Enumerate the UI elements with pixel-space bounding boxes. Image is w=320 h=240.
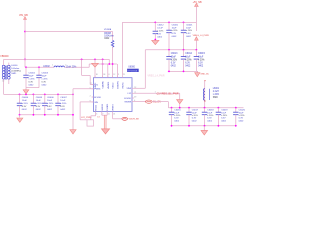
svg-text:10uF: 10uF [22,100,28,102]
wire B inductor feed y=67.3 [25,66,54,68]
svg-text:0402: 0402 [29,85,35,87]
svg-text:0402: 0402 [239,120,245,122]
svg-text:6.3V: 6.3V [192,118,197,120]
svg-text:10uF: 10uF [60,100,66,102]
svg-text:VIO22: VIO22 [113,82,115,89]
wire W2 drop vertical x=112.6 [112,32,114,41]
wire lineB2 y=64.0 [89,63,117,65]
svg-text:0402: 0402 [221,120,227,122]
svg-text:BGDRV: BGDRV [117,80,119,88]
svg-text:C6004: C6004 [22,97,29,99]
svg-text:SWIRE: SWIRE [124,102,131,104]
svg-text:13: 13 [97,117,99,119]
wire W0 end stub below [195,22,197,31]
ground arrow center large [102,129,110,134]
svg-text:10uF: 10uF [221,112,227,114]
svg-text:GND_BL: GND_BL [200,74,210,76]
inductor L6000 common-mode choke [2,65,5,68]
svg-text:C6000: C6000 [172,25,179,27]
svg-text:6: 6 [96,114,97,116]
svg-text:x 20%: x 20% [22,103,28,105]
capacitor C6013 [168,50,170,57]
wire INN pin to FB box [80,101,93,103]
wire input vertical x=25 [24,19,26,67]
svg-text:FB6000: FB6000 [1,56,10,58]
svg-text:6.3V: 6.3V [198,62,203,64]
IC U6000 highlighted part number MT6368A [127,69,139,72]
svg-text:(100MHz): (100MHz) [11,70,21,72]
svg-text:10uF: 10uF [186,27,192,29]
svg-text:C6018: C6018 [207,110,214,112]
svg-text:0402: 0402 [172,36,178,38]
svg-text:49: 49 [134,97,136,99]
svg-text:6.3V: 6.3V [171,62,176,64]
svg-text:6.3V: 6.3V [29,82,34,84]
svg-text:10uF: 10uF [174,112,180,114]
node W3/VIN-arrow junction [94,59,96,61]
IC top pins [94,76,96,78]
svg-text:VDDPA: VDDPA [102,81,105,89]
node input/W3 junction [24,59,26,61]
svg-text:C6013: C6013 [171,53,178,55]
ground arrow upper caps [25,88,27,90]
power flag VREG_L4_PWR [195,37,199,40]
svg-text:6.3V: 6.3V [42,82,47,84]
svg-text:10uF: 10uF [29,76,35,78]
node rail3 junctions [171,107,173,109]
capacitor C6016 [171,108,173,113]
choke top stub wires [3,59,5,65]
svg-text:L6002: L6002 [43,66,50,68]
wire SWIRE pin to oval [134,101,146,103]
svg-text:ISNS1: ISNS1 [122,82,124,89]
svg-text:10uF: 10uF [185,56,191,58]
wire VINF pin to rail A riser [134,87,145,89]
resistor R6001 box [87,120,94,126]
node lineB2 junctions [102,63,104,65]
svg-text:SMD: SMD [213,97,218,99]
inductor L6001 pin tick top [204,80,206,82]
svg-text:+5V_NB: +5V_NB [193,1,202,4]
ground arrow bottom-right bank [203,126,205,131]
svg-text:10uF: 10uF [172,27,178,29]
svg-text:C6017: C6017 [192,110,199,112]
svg-text:C6020: C6020 [239,110,246,112]
svg-text:U6000: U6000 [128,67,135,69]
node W3/choke-drop junction [81,59,83,61]
wire ground rail y=94.4 [4,93,73,95]
wire rail3 y=107.7 [168,107,243,109]
capacitor C6004 [19,94,21,103]
capacitor C6012 on W0 [154,22,156,31]
node rail A junctions [168,49,170,51]
svg-text:0402: 0402 [157,36,163,38]
svg-text:VREG_L4_PWR: VREG_L4_PWR [193,35,210,37]
svg-text:17: 17 [90,83,92,85]
svg-text:x 20%: x 20% [172,30,178,32]
svg-text:LX1: LX1 [94,85,99,87]
svg-text:0.1uF: 0.1uF [157,28,163,30]
wire FB pin down to box [95,113,97,115]
svg-text:AVDD1: AVDD1 [107,81,110,89]
svg-text:VREG_L4_PWR: VREG_L4_PWR [148,76,165,78]
svg-text:x 20%: x 20% [29,79,35,81]
svg-text:C6002: C6002 [29,73,36,75]
ground stem center double line [103,115,105,129]
wire W2 horizontal y=31.5 [25,31,113,33]
node W0 junctions [154,22,156,24]
capacitor C6014 [183,50,185,57]
svg-text:0402: 0402 [198,65,204,67]
node rail4 junctions [171,125,173,127]
svg-text:6.3V: 6.3V [207,118,212,120]
svg-text:SMD: SMD [11,73,16,75]
svg-text:PWM1: PWM1 [94,89,101,91]
node bottom rail junctions [19,114,21,116]
svg-text:0402: 0402 [47,109,53,111]
capacitor C6018 [204,108,206,113]
svg-text:10uF: 10uF [47,100,53,102]
IC right pins [132,87,134,89]
node wire B cap C6003 junction [38,66,40,68]
capacitor C6006 [44,94,46,103]
svg-text:6.3V: 6.3V [47,106,52,108]
svg-text:C6001: C6001 [186,25,193,27]
svg-text:x 20%: x 20% [221,115,227,117]
svg-text:C6016: C6016 [174,110,181,112]
inductor L6002 [54,66,64,67]
svg-text:6.3V: 6.3V [239,118,244,120]
svg-text:10uF: 10uF [207,112,213,114]
svg-text:10uF: 10uF [42,76,48,78]
svg-text:1 2: 1 2 [2,81,5,83]
wire rail B y=71.4 [168,70,198,72]
svg-text:0402: 0402 [42,85,48,87]
node C6012 bottom [154,39,156,41]
svg-text:C6005: C6005 [36,97,43,99]
svg-text:6.3V: 6.3V [60,106,65,108]
svg-text:0402: 0402 [22,109,28,111]
svg-text:ELVDD: ELVDD [124,98,131,100]
svg-text:x 20%: x 20% [157,31,163,33]
capacitor C6000 [168,22,170,30]
svg-text:0402: 0402 [36,109,42,111]
wire B jog up to lineB2 [88,64,90,67]
wire LX2 net to bottom-right bank [134,92,180,94]
capacitor C6003 [38,67,40,75]
wire W0 drop to IC pin x=122.4 [121,22,123,75]
svg-text:6.3V: 6.3V [186,33,191,35]
svg-text:VDDPA: VDDPA [104,28,112,31]
node rail B junctions [168,71,170,73]
capacitor C6015 [195,50,197,57]
svg-text:6.3V: 6.3V [221,118,226,120]
svg-text:C6014: C6014 [185,53,192,55]
svg-text:13: 13 [113,114,115,116]
svg-text:x 20%: x 20% [185,59,191,61]
svg-text:6.3V: 6.3V [174,118,179,120]
svg-text:6.3V: 6.3V [36,106,41,108]
wire W0 top rail y=22.4 [122,21,196,23]
resistor R6000 [111,40,114,47]
svg-text:C6019: C6019 [221,110,228,112]
svg-text:0402: 0402 [185,65,191,67]
svg-text:x 20%: x 20% [174,115,180,117]
wire rail4 y=125.8 [172,125,236,127]
svg-text:21: 21 [123,74,125,76]
svg-text:10uF: 10uF [36,100,42,102]
wire top pin drops [102,59,104,77]
wire GND riser x=73 to IC pin wire [72,89,74,130]
svg-text:L6000: L6000 [11,65,18,67]
svg-text:VIN_NB: VIN_NB [19,14,28,17]
svg-text:x 20%: x 20% [213,94,219,96]
wire rail A y=49.8 [145,49,196,51]
svg-text:5: 5 [90,87,91,89]
inductor L6001 pin tick bottom [204,100,206,102]
net oval label BL_ON [146,100,153,103]
svg-text:6.3V: 6.3V [22,106,27,108]
capacitor C6017 [188,108,190,113]
svg-text:0402: 0402 [186,36,192,38]
svg-text:10uF: 10uF [192,112,198,114]
svg-text:x 20%: x 20% [192,115,198,117]
svg-text:x 20%: x 20% [47,103,53,105]
svg-text:x 20%: x 20% [198,59,204,61]
capacitor C6002 [25,67,27,75]
svg-text:x 20%: x 20% [42,79,48,81]
wire GND pins to stem [101,113,103,115]
svg-text:0402: 0402 [207,120,213,122]
ground arrow riser x=73 [70,130,76,134]
wire SWIRE corner to rail3 [152,101,168,103]
svg-text:2.2uH: 2.2uH [213,91,219,93]
svg-text:LX2: LX2 [127,93,132,95]
svg-text:10uF: 10uF [171,56,177,58]
svg-text:16V: 16V [157,33,161,35]
svg-text:16: 16 [96,74,98,76]
svg-text:8: 8 [109,74,110,76]
svg-text:MT6368A: MT6368A [128,70,138,73]
svg-text:1: 1 [155,91,156,93]
svg-text:ELVDD: ELVDD [94,97,101,99]
svg-text:C6006: C6006 [47,97,54,99]
inductor L6001 [204,81,206,108]
capacitor C6005 [32,94,34,103]
svg-text:x 20%: x 20% [239,115,245,117]
capacitor C6020 [235,108,237,113]
ground arrow lower-left bank [19,115,21,118]
svg-text:VINF: VINF [126,88,131,90]
svg-text:10uF: 10uF [239,112,245,114]
capacitor C6007 [57,94,59,103]
svg-text:100ohm: 100ohm [11,68,19,70]
svg-text:10uH 20%: 10uH 20% [66,67,77,69]
svg-text:0402: 0402 [104,38,110,40]
IC bottom pins [95,112,97,114]
svg-text:INN: INN [94,102,98,104]
svg-text:VREF2: VREF2 [113,103,115,111]
wire upper caps join y=87.6 [26,87,39,89]
node input/W2 junction [24,31,26,33]
svg-text:2: 2 [90,96,91,98]
svg-text:6.3V: 6.3V [185,62,190,64]
node W3 pin2 feed junction [102,59,104,61]
svg-text:L6001: L6001 [213,88,220,90]
net oval label VDDR_B8 [122,117,128,120]
svg-text:x 20%: x 20% [186,30,192,32]
svg-text:38: 38 [103,74,105,76]
svg-text:FB112: FB112 [96,104,98,111]
capacitor C6001 [183,22,185,30]
wire VREF pin to oval [112,113,114,118]
wire bank bottom rail y=114.8 [20,114,74,116]
power arrow LX2 drop [179,93,181,99]
svg-text:GND12: GND12 [102,103,104,111]
node rail junctions [19,94,21,96]
svg-text:10uF: 10uF [198,56,204,58]
svg-text:C6007: C6007 [60,97,67,99]
wire rail A left drop x=145.3 [144,50,146,89]
wire W3 horizontal y=58.6 [4,58,110,60]
inductor L6001 core bar [209,89,211,100]
svg-text:6.3V: 6.3V [172,33,177,35]
capacitor C6019 [217,108,219,113]
svg-text:x 20%: x 20% [60,103,66,105]
choke bottom stub wires [3,79,5,94]
ground arrow rail B [196,71,198,72]
svg-text:PGND1: PGND1 [107,103,109,111]
svg-text:C6012: C6012 [157,25,164,27]
svg-text:0402: 0402 [171,65,177,67]
svg-text:0402: 0402 [192,120,198,122]
svg-text:3: 3 [118,74,119,76]
svg-text:0402: 0402 [60,109,66,111]
svg-text:1: 1 [52,64,53,66]
wire W3 drop to IC left pins [81,59,83,75]
wire W3 corner drop x=109.3 [108,59,110,64]
svg-text:x 20%: x 20% [36,103,42,105]
svg-text:C6003: C6003 [42,73,49,75]
svg-text:(2) VREG_BL_PWR: (2) VREG_BL_PWR [157,92,179,95]
svg-text:C6015: C6015 [198,53,205,55]
ground arrow C6012 [152,40,159,44]
svg-text:x 20%: x 20% [171,59,177,61]
power arrow VIN into IC pin 1 [94,59,96,63]
svg-text:0402: 0402 [174,120,180,122]
op-amp/IC U6000 body [94,78,133,112]
svg-text:x 20%: x 20% [207,115,213,117]
IC left pins [92,84,94,86]
svg-text:VDDR_B8: VDDR_B8 [129,119,140,121]
svg-text:LX2_PWM: LX2_PWM [81,117,92,119]
svg-text:11: 11 [108,114,110,116]
svg-text:12: 12 [113,74,115,76]
